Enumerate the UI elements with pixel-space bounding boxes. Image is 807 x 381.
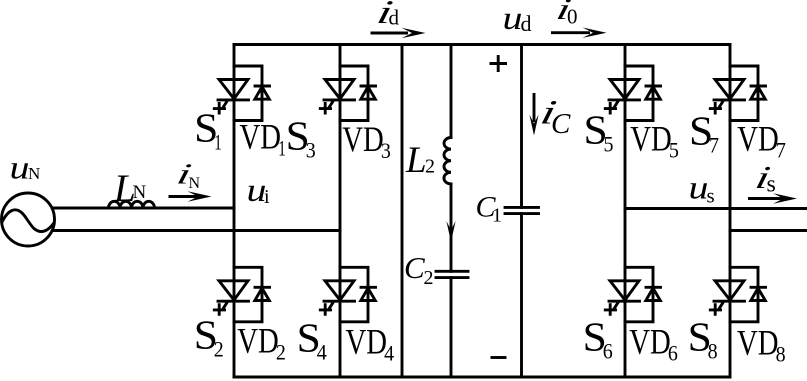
- svg-text:7: 7: [709, 133, 719, 158]
- svg-text:6: 6: [668, 341, 678, 366]
- svg-text:L: L: [405, 140, 427, 181]
- svg-text:1: 1: [214, 130, 222, 155]
- svg-text:C: C: [551, 108, 571, 140]
- svg-text:VD: VD: [237, 321, 278, 361]
- svg-text:5: 5: [669, 138, 679, 163]
- svg-text:C: C: [404, 250, 425, 285]
- svg-text:s: s: [767, 172, 776, 198]
- svg-text:VD: VD: [629, 322, 671, 362]
- svg-text:5: 5: [604, 132, 614, 157]
- svg-text:VD: VD: [342, 119, 384, 159]
- svg-text:u: u: [10, 151, 30, 187]
- svg-text:1: 1: [492, 205, 502, 227]
- svg-text:8: 8: [708, 339, 718, 364]
- svg-text:VD: VD: [346, 322, 388, 362]
- svg-text:s: s: [707, 184, 715, 208]
- svg-text:VD: VD: [737, 323, 779, 363]
- svg-text:1: 1: [278, 136, 286, 161]
- svg-text:6: 6: [603, 339, 613, 364]
- svg-text:i: i: [264, 186, 270, 208]
- svg-text:u: u: [689, 171, 709, 207]
- svg-text:0: 0: [567, 5, 578, 29]
- svg-text:2: 2: [276, 340, 286, 365]
- svg-text:4: 4: [317, 340, 327, 365]
- svg-text:VD: VD: [630, 119, 672, 159]
- svg-text:N: N: [133, 182, 147, 203]
- svg-text:3: 3: [306, 138, 316, 163]
- svg-text:2: 2: [424, 267, 434, 289]
- svg-text:8: 8: [776, 342, 786, 367]
- svg-text:7: 7: [776, 138, 786, 163]
- svg-text:N: N: [189, 175, 201, 192]
- svg-text:d: d: [521, 11, 532, 36]
- svg-text:2: 2: [214, 337, 224, 362]
- svg-text:4: 4: [384, 341, 394, 366]
- svg-text:2: 2: [425, 156, 435, 178]
- svg-text:N: N: [28, 164, 40, 183]
- svg-text:VD: VD: [737, 119, 779, 159]
- svg-text:u: u: [503, 1, 523, 37]
- svg-text:VD: VD: [240, 117, 282, 157]
- svg-text:3: 3: [381, 138, 391, 163]
- svg-text:d: d: [389, 6, 400, 30]
